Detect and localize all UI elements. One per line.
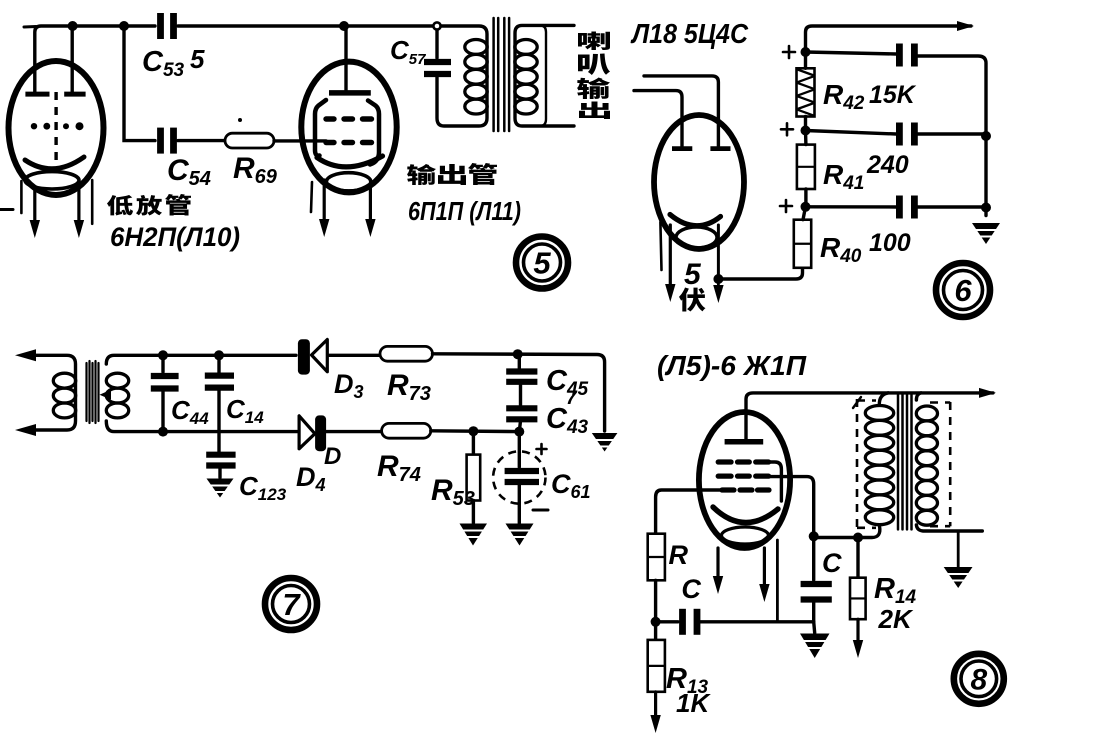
svg-text:6П1П (Л11): 6П1П (Л11): [408, 196, 521, 226]
svg-text:D: D: [324, 443, 341, 470]
svg-text:15K: 15K: [869, 81, 917, 109]
svg-text:Л18 5Ц4С: Л18 5Ц4С: [630, 18, 748, 49]
svg-text:5: 5: [190, 44, 205, 74]
svg-text:7: 7: [282, 587, 301, 622]
svg-text:7: 7: [566, 388, 578, 409]
svg-text:240: 240: [866, 151, 909, 179]
svg-text:5: 5: [533, 246, 551, 281]
svg-text:1K: 1K: [676, 688, 711, 718]
svg-text:100: 100: [869, 229, 911, 257]
svg-text:5: 5: [684, 258, 702, 291]
svg-text:C: C: [681, 574, 701, 604]
svg-text:C: C: [822, 548, 842, 578]
svg-text:2K: 2K: [878, 604, 914, 634]
svg-text:8: 8: [970, 664, 987, 697]
svg-text:6: 6: [954, 273, 972, 308]
svg-text:R: R: [669, 540, 689, 570]
svg-text:(Л5)-6 Ж1П: (Л5)-6 Ж1П: [657, 350, 807, 381]
svg-text:6Н2П(Л10): 6Н2П(Л10): [110, 222, 240, 252]
